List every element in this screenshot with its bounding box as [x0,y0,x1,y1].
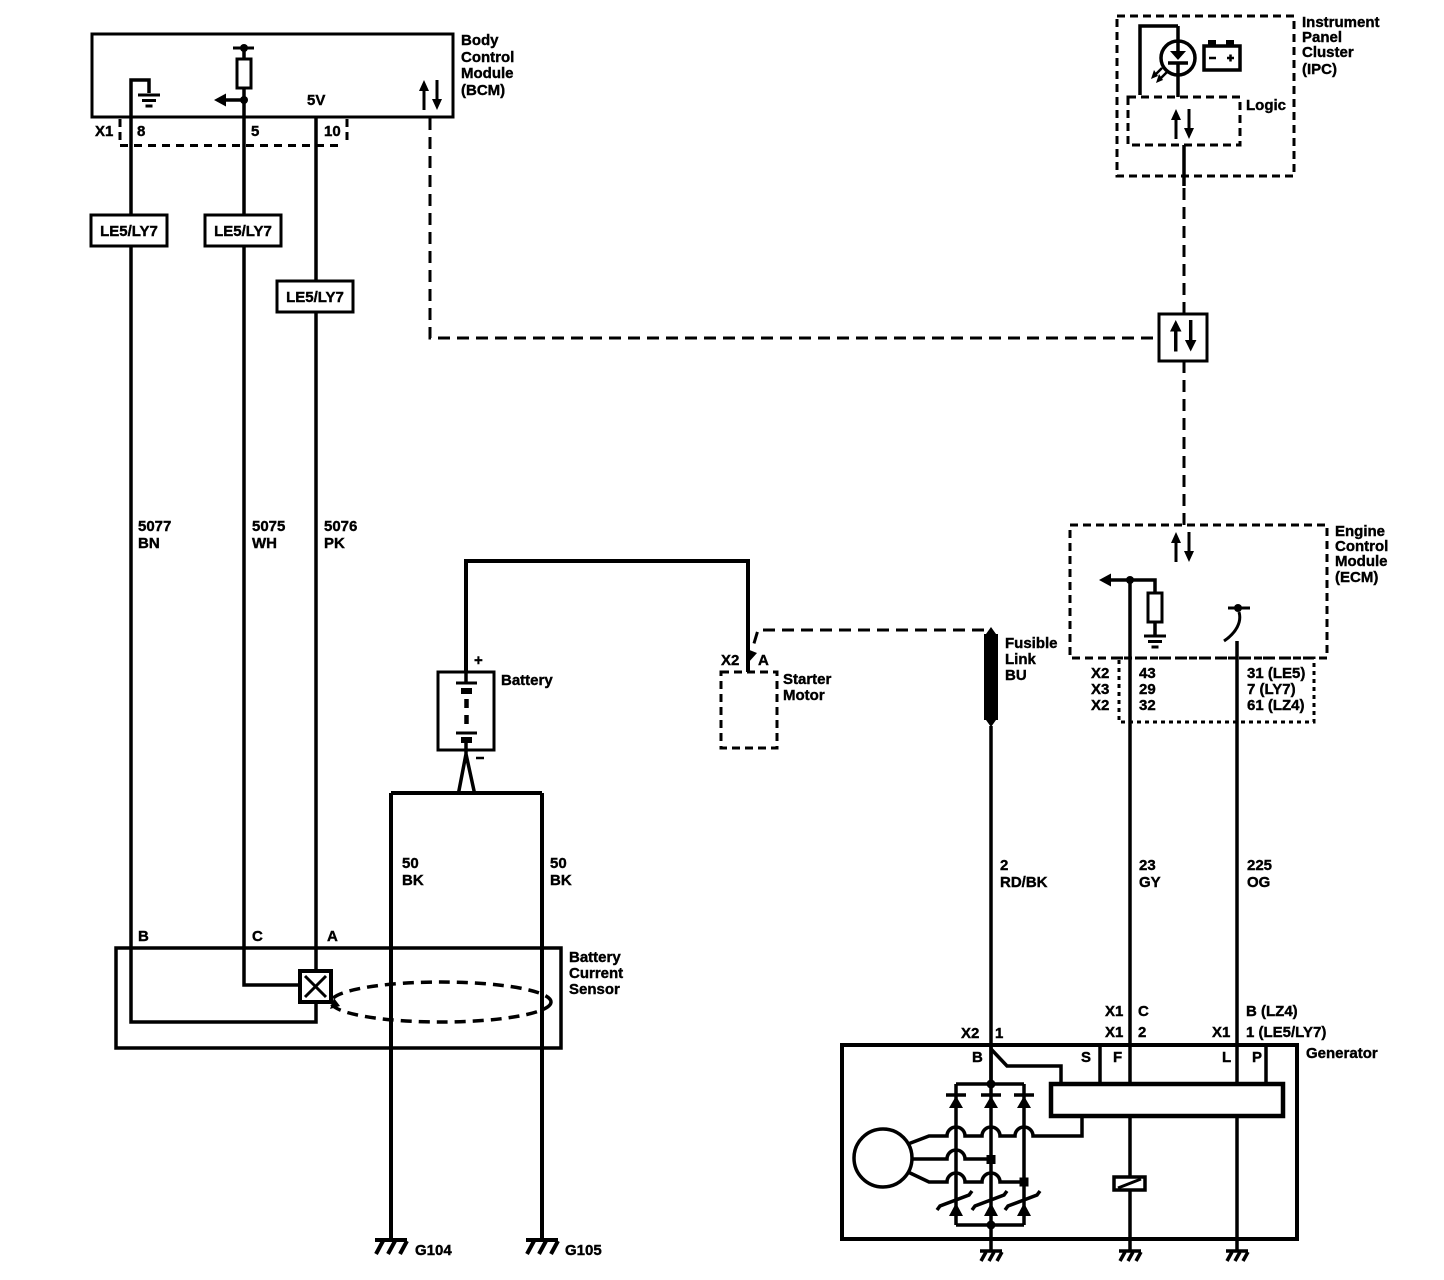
wire (battery positive cable to starter) [466,561,748,672]
svg-text:C: C [1138,1003,1149,1020]
svg-text:(ECM): (ECM) [1335,569,1378,586]
svg-text:X2: X2 [961,1025,979,1042]
generator box [842,1045,1297,1239]
ECM module box (dashed) [1070,525,1327,658]
wire (battery negative V split) [459,750,475,793]
svg-text:5076: 5076 [324,518,357,535]
wire serial data (splice to IPC, dashed) [1183,186,1186,314]
svg-text:L: L [1222,1049,1231,1066]
ground (BCM internal) [138,95,160,106]
IPC module box (dashed) [1117,16,1294,176]
svg-text:S: S [1081,1049,1091,1066]
battery telltale icon (IPC) [1204,40,1240,70]
battery current sensor box [116,948,561,1048]
svg-text:BK: BK [550,872,572,889]
svg-text:X2: X2 [721,652,739,669]
wire label 5077 BN [138,518,171,552]
wire 23 GY (ECM to generator F) [1128,580,1132,1251]
wire rectifier left leg [954,1084,958,1225]
field winding (generator rotor) [1114,1177,1145,1190]
svg-text:50: 50 [550,855,567,872]
svg-text:GY: GY [1139,874,1161,891]
wire label 2 RD/BK [1000,857,1048,891]
wire 5077 BN (pin 8 to sensor B) [131,117,316,1022]
ground G105 [526,1240,558,1254]
battery B1 [438,672,494,750]
ECM pin labels 31/7/61 [1247,665,1305,714]
ECM label [1335,523,1388,586]
generator connector labels X2 1 [961,1025,1003,1042]
serial data arrows (ECM) [1171,532,1194,562]
svg-text:+: + [474,652,483,669]
svg-text:61 (LZ4): 61 (LZ4) [1247,697,1305,714]
svg-text:WH: WH [252,535,277,552]
svg-text:5V: 5V [307,92,325,109]
serial data splice box [1159,314,1207,361]
svg-text:PK: PK [324,535,345,552]
resistor (BCM internal) [237,59,251,88]
wire rectifier middle leg [989,1084,993,1225]
svg-text:10: 10 [324,123,341,140]
svg-text:31 (LE5): 31 (LE5) [1247,665,1305,682]
diode zener (rectifier lower right) [1005,1191,1040,1216]
svg-text:2: 2 [1000,857,1008,874]
BCM module box U1 [92,34,453,117]
svg-text:Starter: Starter [783,671,832,688]
svg-text:32: 32 [1139,697,1156,714]
svg-text:43: 43 [1139,665,1156,682]
wire label 50 BK left [402,855,424,889]
sensor loop ellipse (dashed) [331,982,551,1022]
diode (rectifier upper left) [946,1095,966,1108]
svg-text:BU: BU [1005,667,1027,684]
node (BCM resistor top dot) [240,44,248,52]
ECM connector labels X2/X3/X2 [1091,665,1109,714]
svg-text:7 (LY7): 7 (LY7) [1247,681,1296,698]
diode (rectifier upper right) [1014,1095,1034,1108]
connector (ECM, dotted box) [1119,658,1314,722]
wire rectifier bottom bus [956,1223,1024,1227]
svg-text:X1: X1 [1105,1003,1123,1020]
signal arrow (BCM internal) [214,94,245,107]
wire (IPC logic to edge) [1182,145,1186,186]
BCM label [461,32,514,99]
serial data arrows (BCM) [419,80,442,110]
diode (rectifier upper middle) [981,1095,1001,1108]
wire 5076 PK (pin 10 to sensor A) [314,117,318,971]
connector notch (S/F) [1098,1045,1102,1084]
svg-text:Generator: Generator [1306,1045,1378,1062]
node arrow (tap to battery cable) [747,649,757,663]
diode zener (rectifier lower left) [937,1191,972,1216]
ECM pin labels 43/29/32 [1139,665,1156,714]
wire rectifier top bus [956,1082,1024,1086]
serial data arrows (IPC logic) [1171,109,1194,139]
wire (B to regulator link) [991,1049,1061,1084]
svg-text:X1: X1 [1212,1024,1230,1041]
svg-text:BK: BK [402,872,424,889]
svg-text:1: 1 [995,1025,1003,1042]
svg-text:5: 5 [251,123,259,140]
sensor loop arrow [330,998,340,1009]
wire label 5076 PK [324,518,357,552]
svg-text:(BCM): (BCM) [461,82,505,99]
svg-text:50: 50 [402,855,419,872]
switch (ECM internal, L terminal driver) [1224,604,1250,641]
svg-text:BN: BN [138,535,160,552]
node (phase 2 junction) [987,1155,996,1164]
ground (generator F) [1119,1251,1141,1261]
IPC logic box (dashed) [1128,97,1240,145]
wire (ECM resistor to ground) [1153,622,1157,636]
LED light arrows [1151,68,1167,83]
wire 2 RD/BK (fusible link to generator B) [989,726,993,1084]
node - (battery negative) [476,757,484,760]
svg-text:X2: X2 [1091,697,1109,714]
svg-text:2: 2 [1138,1024,1146,1041]
svg-text:Fusible: Fusible [1005,635,1058,652]
svg-text:8: 8 [137,123,145,140]
wire (ECM junction to resistor) [1130,580,1155,593]
svg-text:Cluster: Cluster [1302,44,1354,61]
svg-text:225: 225 [1247,857,1272,874]
ground (generator B) [980,1251,1002,1261]
wire label 50 BK right [550,855,572,889]
svg-text:X1: X1 [95,123,113,140]
svg-text:X3: X3 [1091,681,1109,698]
svg-text:5075: 5075 [252,518,285,535]
svg-text:29: 29 [1139,681,1156,698]
starter motor label [783,671,832,704]
wire (B pin into rectifier) [989,1045,993,1084]
svg-text:Battery: Battery [501,672,553,689]
svg-text:Logic: Logic [1246,97,1286,114]
label LE5/LY7 (wire 5077) [91,215,167,246]
resistor (ECM pull-up) [1148,593,1162,622]
svg-text:Module: Module [1335,553,1388,570]
wire (fusible link tap, dashed) [752,630,984,650]
ground (generator L) [1226,1251,1248,1261]
ground G104 [375,1240,407,1254]
svg-text:F: F [1113,1049,1122,1066]
wire 225 OG (ECM to generator L) [1235,641,1239,1251]
svg-text:X2: X2 [1091,665,1109,682]
svg-text:Sensor: Sensor [569,981,620,998]
svg-text:Motor: Motor [783,687,825,704]
svg-text:B (LZ4): B (LZ4) [1246,1003,1298,1020]
svg-text:A: A [327,928,338,945]
svg-text:G104: G104 [415,1242,452,1259]
LED indicator (IPC charge telltale) [1161,26,1195,97]
wire 5075 WH (pin 5 to sensor C) [244,117,300,985]
generator connector labels X1 C / X1 2 [1105,1003,1149,1041]
wire (BCM resistor bottom to pin 5) [242,88,246,117]
node (BCM arrow junction dot) [240,96,248,104]
svg-text:C: C [252,928,263,945]
IPC label [1302,14,1380,78]
svg-text:Module: Module [461,65,514,82]
wire (IPC LED anode loop) [1140,26,1178,95]
wire label 225 OG [1247,857,1272,891]
svg-text:Battery: Battery [569,949,621,966]
svg-text:OG: OG [1247,874,1270,891]
connector notch (right of P) [1264,1045,1268,1084]
wire stator phase 1 (to regulator) [908,1116,1082,1144]
svg-text:RD/BK: RD/BK [1000,874,1048,891]
wire 50 BK right (to G105) [540,793,544,1240]
starter motor connector labels X2 A [721,652,769,669]
svg-text:5077: 5077 [138,518,171,535]
battery current sensor label [569,949,623,998]
voltage regulator (generator) [1051,1084,1283,1116]
svg-text:Body: Body [461,32,499,49]
node (ECM arrow junction dot) [1126,576,1134,584]
fusible link BU [984,627,998,727]
stator winding (generator) [854,1129,912,1187]
signal arrow (ECM internal) [1099,574,1130,587]
ground (ECM internal) [1144,636,1166,647]
svg-text:X1: X1 [1105,1024,1123,1041]
wire serial data (splice to ECM, dashed) [1183,361,1186,525]
svg-text:B: B [138,928,149,945]
svg-text:Control: Control [461,49,514,66]
wire 50 BK left (to G104) [389,793,393,1240]
sensor element (X box) [300,971,331,1002]
svg-text:1 (LE5/LY7): 1 (LE5/LY7) [1246,1024,1326,1041]
wire (rectifier to case ground) [989,1225,993,1251]
wire stator phase 2 (to middle leg) [912,1150,991,1159]
wire label 23 GY [1139,857,1161,891]
wire (BCM internal ground wire) [131,80,149,117]
svg-text:A: A [758,652,769,669]
wire serial data (BCM to splice, dashed) [430,118,1159,338]
node (rectifier bottom bus dot) [987,1221,996,1230]
connector X1 (BCM) [95,119,347,146]
node (rectifier top bus dot) [987,1080,996,1089]
svg-text:(IPC): (IPC) [1302,61,1337,78]
wire (BCM resistor top) [233,48,254,59]
diode zener (rectifier lower middle) [972,1191,1007,1216]
svg-text:23: 23 [1139,857,1156,874]
wire rectifier right leg [1022,1084,1026,1225]
generator connector labels X1 B/1 [1212,1003,1326,1041]
wire 50 BK bus [391,791,542,795]
svg-text:Link: Link [1005,651,1036,668]
svg-text:B: B [972,1049,983,1066]
label LE5/LY7 (wire 5076) [277,281,353,312]
serial data arrows (splice box) [1170,320,1196,352]
wire label 5075 WH [252,518,285,552]
node (phase 3 junction) [1020,1178,1029,1187]
svg-text:P: P [1252,1049,1262,1066]
svg-text:Current: Current [569,965,623,982]
wire stator phase 3 (to right leg) [908,1172,1024,1182]
starter motor box (dashed) [721,672,777,748]
fusible link label [1005,635,1058,684]
svg-text:G105: G105 [565,1242,602,1259]
label LE5/LY7 (wire 5075) [205,215,281,246]
